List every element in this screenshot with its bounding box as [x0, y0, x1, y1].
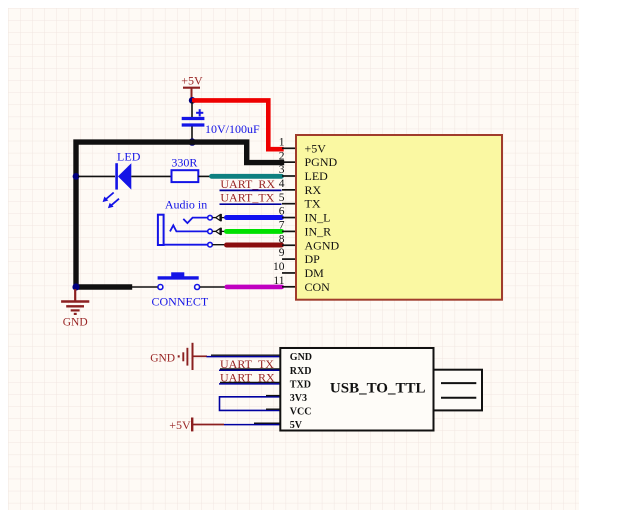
module U2 USB_TO_TTL body: [280, 348, 433, 431]
svg-text:11: 11: [273, 275, 284, 287]
svg-text:GND: GND: [290, 352, 312, 363]
svg-text:CON: CON: [305, 280, 331, 294]
svg-text:10V/100uF: 10V/100uF: [205, 122, 260, 136]
capacitor C1 lead wires: [191, 102, 193, 140]
svg-text:AGND: AGND: [305, 238, 340, 252]
wire CON magenta thick: [227, 285, 282, 290]
svg-text:IN_L: IN_L: [305, 211, 331, 225]
junction dot C: [73, 173, 80, 180]
svg-text:TX: TX: [305, 197, 321, 211]
svg-text:7: 7: [279, 220, 285, 232]
net label UART_TX (bottom): [219, 357, 281, 371]
power symbol +5V (top): [181, 74, 203, 101]
svg-text:USB_TO_TTL: USB_TO_TTL: [330, 381, 426, 397]
wire thick black to gnd row: [76, 284, 132, 290]
svg-text:LED: LED: [117, 149, 141, 163]
IC U1 pin names: [305, 141, 340, 293]
svg-text:DP: DP: [305, 252, 321, 266]
svg-text:RX: RX: [305, 183, 322, 197]
wire teal LED net: [212, 174, 282, 179]
net label UART_TX: [220, 191, 282, 205]
IC U1 pin stubs: [282, 148, 295, 286]
svg-text:6: 6: [279, 206, 285, 218]
wire gnd bus to button: [132, 286, 158, 288]
wire LED row left: [78, 175, 115, 177]
IC U1 pin numbers: [273, 136, 285, 287]
audio jack ring terminal circle: [208, 229, 213, 234]
svg-text:330R: 330R: [171, 156, 197, 170]
IC U1 body: [296, 135, 502, 300]
svg-text:VCC: VCC: [290, 407, 312, 418]
wire LED to resistor: [131, 175, 171, 177]
wire resistor to teal: [198, 175, 211, 177]
svg-text:IN_R: IN_R: [305, 224, 332, 238]
LED D1: [103, 163, 132, 208]
audio jack tip contact: [183, 218, 207, 224]
svg-text:+5V: +5V: [169, 418, 191, 432]
svg-text:3V3: 3V3: [290, 393, 307, 404]
wire 3V3 to VCC loop: [220, 396, 281, 411]
wire button to magenta: [200, 286, 227, 288]
svg-text:PGND: PGND: [305, 155, 338, 169]
svg-text:RXD: RXD: [290, 366, 312, 377]
wire red +5V to pin 1: [192, 100, 284, 149]
wire circle3 to AGND: [212, 244, 227, 246]
module U2 pin names: [290, 352, 312, 431]
audio jack J1 body: [158, 215, 164, 245]
junction dot A: [189, 97, 196, 104]
wire +5V lead red: [193, 424, 224, 426]
resistor R1: [172, 170, 199, 182]
svg-text:UART_TX: UART_TX: [220, 191, 274, 205]
svg-text:GND: GND: [150, 352, 175, 364]
wire AGND dark red thick: [227, 243, 282, 248]
svg-text:Audio in: Audio in: [165, 198, 207, 212]
svg-text:10: 10: [273, 261, 285, 273]
svg-text:4: 4: [279, 178, 285, 190]
wire gnd lead red: [193, 355, 208, 357]
audio jack sleeve terminal circle: [208, 242, 213, 247]
svg-text:3: 3: [279, 164, 285, 176]
svg-text:GND: GND: [63, 317, 88, 329]
svg-text:9: 9: [279, 247, 285, 259]
svg-text:+5V: +5V: [305, 141, 327, 155]
svg-text:LED: LED: [305, 169, 329, 183]
svg-text:2: 2: [279, 150, 285, 162]
svg-text:1: 1: [279, 136, 285, 148]
net label UART_RX (bottom): [219, 370, 281, 384]
junction dot B: [189, 138, 196, 145]
pushbutton S1: [158, 272, 200, 289]
wire IN_L blue thick: [227, 215, 282, 220]
junction dot D: [72, 283, 79, 290]
wire thick black bus: [76, 142, 284, 287]
USB connector symbol: [434, 370, 483, 411]
audio jack ring contact: [170, 225, 208, 231]
svg-text:UART_RX: UART_RX: [220, 177, 275, 191]
ground symbol GND (bottom, horizontal): [150, 343, 192, 370]
wire gnd to GND pin: [207, 355, 281, 356]
audio jack sleeve wire: [164, 244, 208, 246]
svg-text:5: 5: [279, 192, 285, 204]
ground symbol GND (top): [61, 289, 89, 329]
svg-text:8: 8: [279, 233, 285, 245]
svg-text:+5V: +5V: [181, 74, 203, 88]
input arrow pin 7: [212, 228, 226, 235]
svg-text:5V: 5V: [290, 420, 303, 431]
wire IN_R green thick: [227, 229, 282, 234]
svg-text:DM: DM: [305, 266, 325, 280]
audio jack tip terminal circle: [208, 215, 213, 220]
svg-text:CONNECT: CONNECT: [152, 294, 209, 308]
input arrow pin 6: [212, 214, 226, 221]
svg-text:TXD: TXD: [290, 379, 311, 390]
wire +5V to 5V pin: [224, 423, 281, 424]
net label UART_RX: [220, 177, 282, 191]
capacitor C1 plates: [182, 109, 205, 125]
power symbol +5V (bottom): [169, 418, 192, 432]
